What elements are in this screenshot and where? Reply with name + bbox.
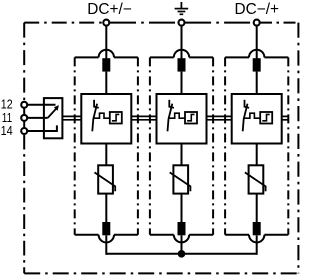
svg-text:DC−/+: DC−/+	[235, 1, 279, 18]
svg-text:DC+/−: DC+/−	[87, 1, 131, 18]
svg-text:14: 14	[1, 123, 13, 138]
